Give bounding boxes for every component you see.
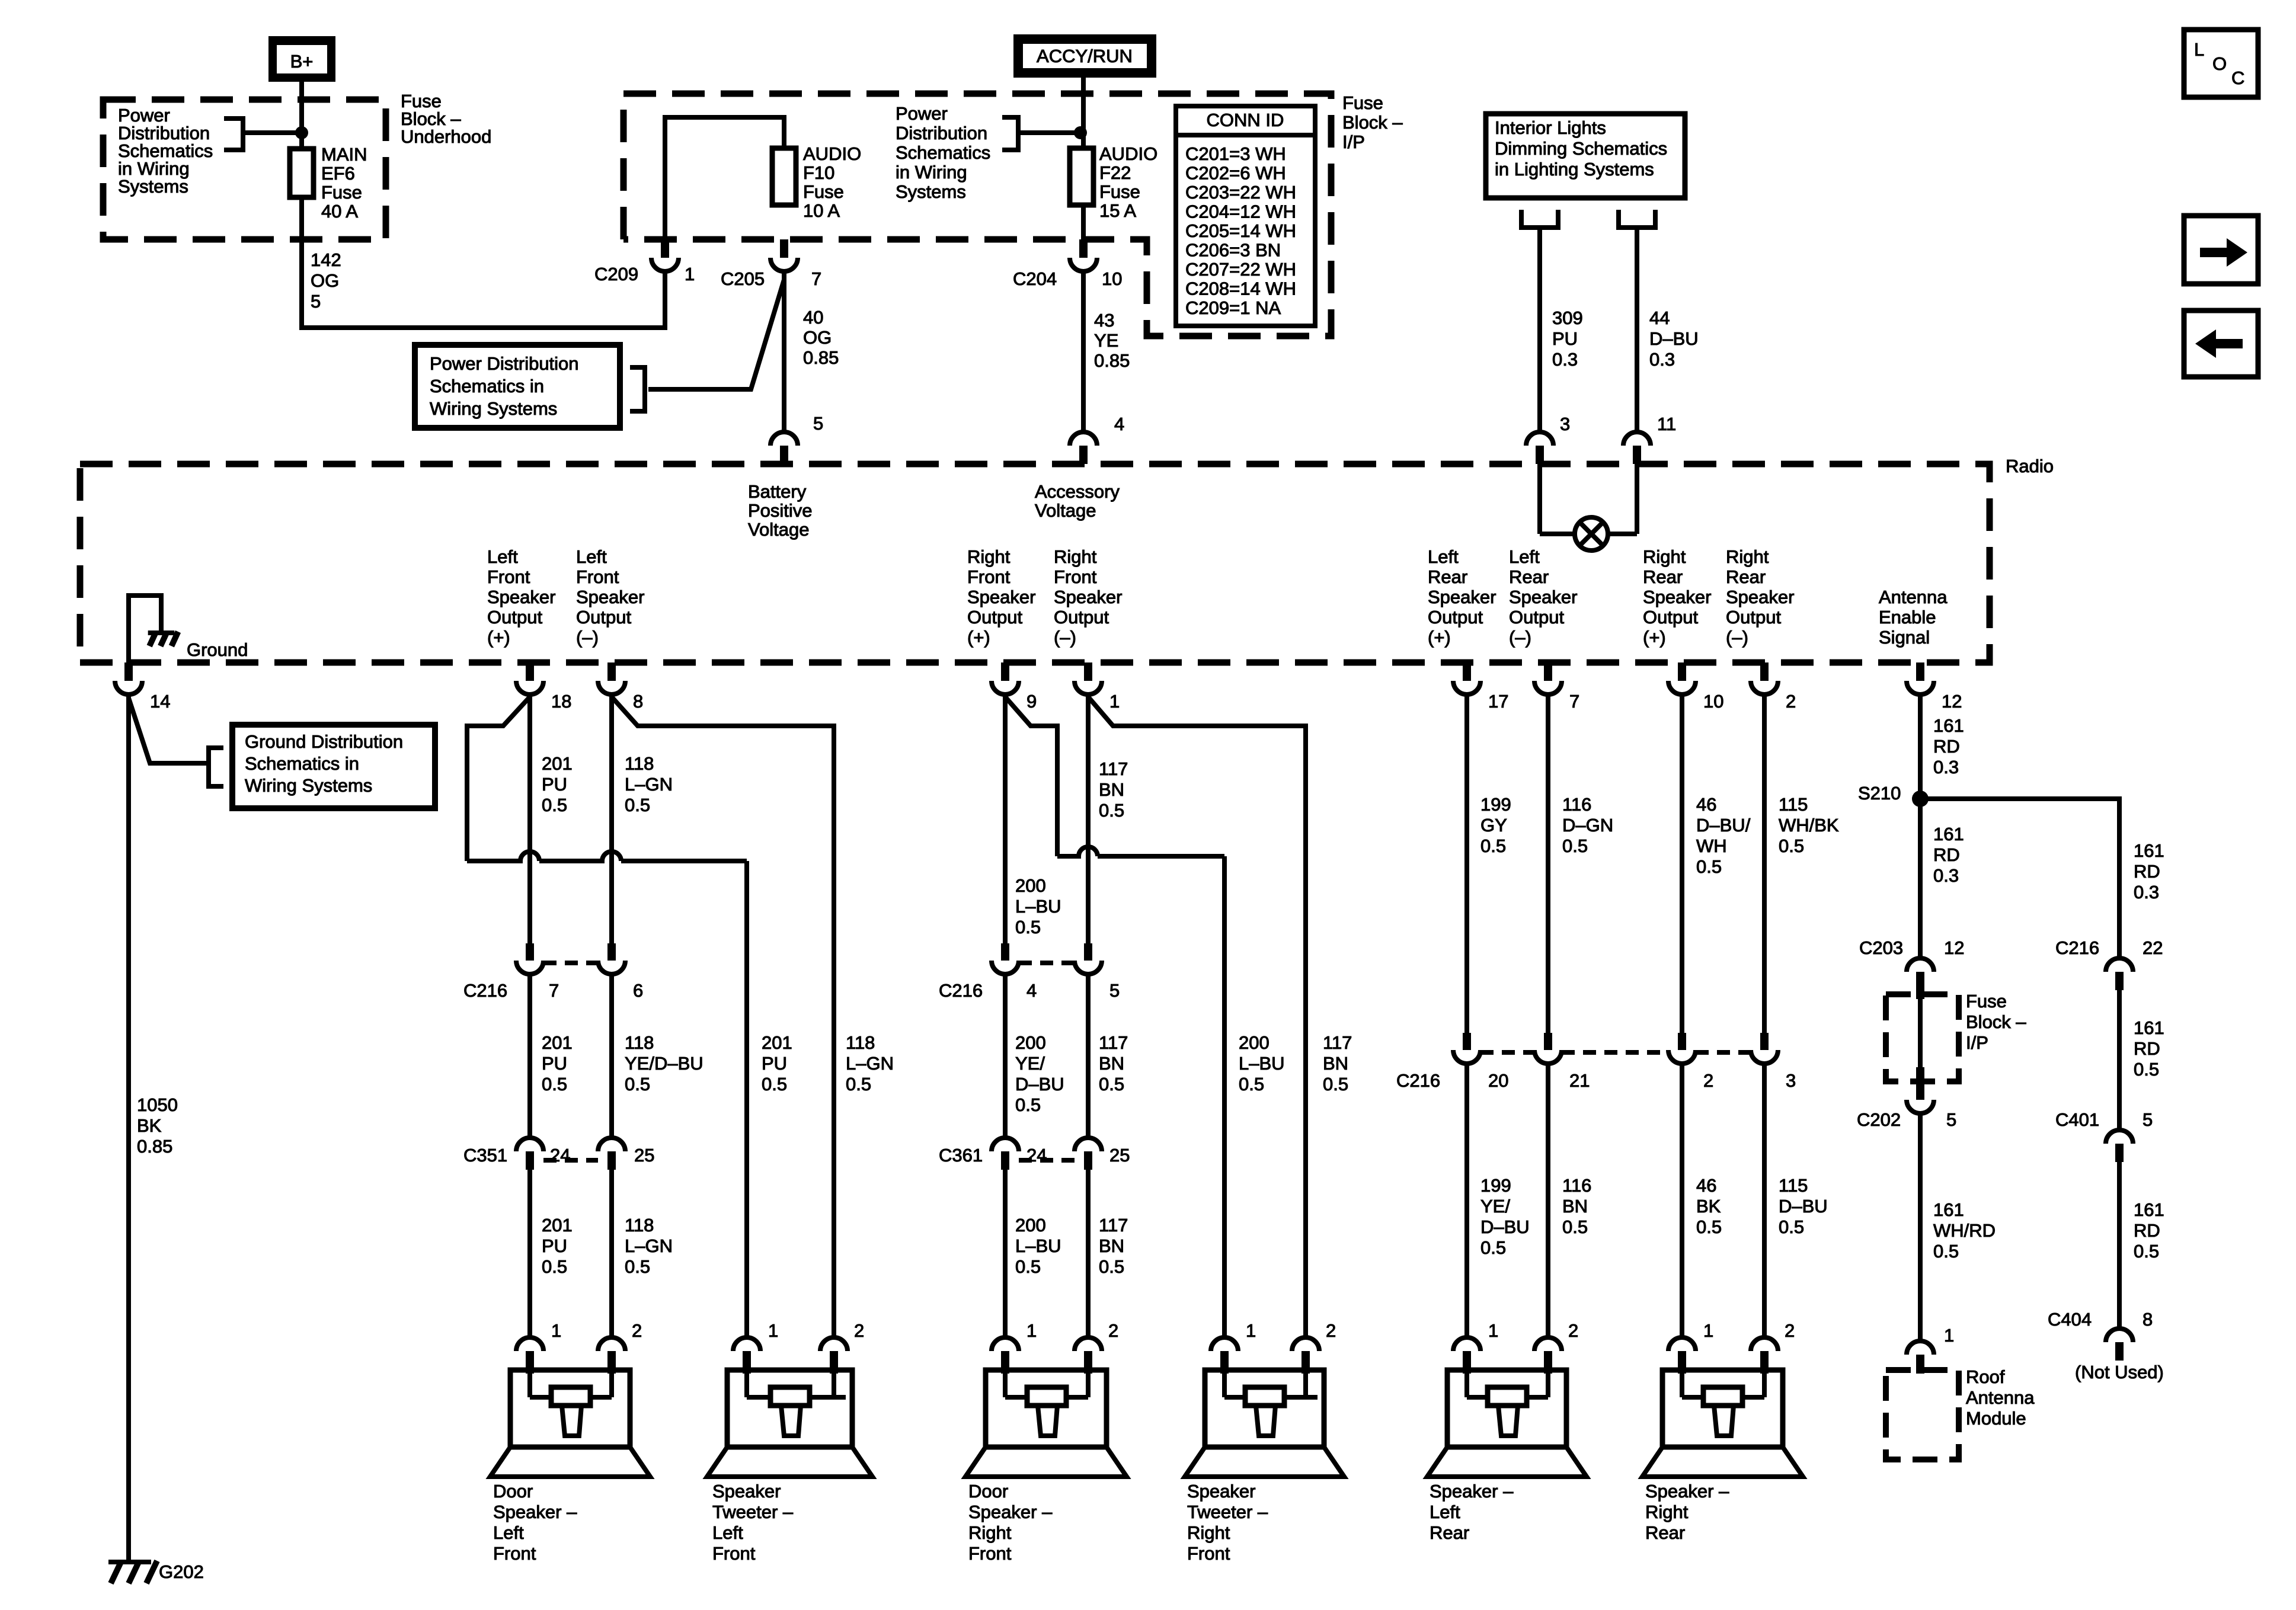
ground G202 bbox=[108, 1561, 157, 1583]
svg-text:(+): (+) bbox=[1643, 627, 1666, 648]
label Left Front Speaker Output (-) bbox=[576, 546, 644, 648]
svg-text:161: 161 bbox=[1933, 1199, 1964, 1220]
radio pin 12 bbox=[1907, 662, 1934, 694]
label 118 YE/D-BU 0.5 bbox=[625, 1032, 703, 1094]
radio pin 14 bbox=[115, 662, 142, 694]
svg-text:PU: PU bbox=[542, 1053, 567, 1074]
svg-text:11: 11 bbox=[1657, 414, 1676, 434]
speaker pins 1 2 tweeter right front bbox=[1246, 1320, 1256, 1341]
speaker pins 1 2 door speaker left front bbox=[551, 1320, 561, 1341]
label 199 YE/ D–BU 0.5 bbox=[1480, 1175, 1530, 1258]
wire 118 YE/D-BU 0.5 C216 to C351 bbox=[609, 974, 614, 1138]
svg-text:116: 116 bbox=[1562, 1175, 1591, 1196]
svg-text:0.5: 0.5 bbox=[1323, 1074, 1348, 1094]
connector C216 pin 7 bbox=[516, 943, 543, 974]
svg-text:0.5: 0.5 bbox=[1239, 1074, 1264, 1094]
svg-text:3: 3 bbox=[1560, 414, 1570, 434]
svg-text:0.85: 0.85 bbox=[137, 1136, 172, 1157]
connector C205 pin 7 bbox=[770, 239, 798, 271]
speaker left rear bbox=[1427, 1337, 1587, 1477]
box Power Distribution Schematics in Wiring Systems bbox=[415, 345, 620, 428]
connector C209 pin 1 bbox=[651, 239, 679, 271]
svg-text:117: 117 bbox=[1099, 1032, 1128, 1053]
svg-text:2: 2 bbox=[1703, 1070, 1713, 1091]
svg-text:117: 117 bbox=[1323, 1032, 1352, 1053]
label 117 BN 0.5 (pin 1) bbox=[1099, 758, 1128, 821]
connector C216 rear joint bbox=[1480, 1050, 1751, 1055]
svg-text:200: 200 bbox=[1015, 875, 1046, 896]
radio pin 3 bbox=[1526, 432, 1553, 464]
label 46 D–BU/ WH 0.5 bbox=[1696, 794, 1751, 877]
wire 201 PU 0.5 pin 18 to C216 bbox=[527, 694, 532, 943]
svg-text:142: 142 bbox=[311, 249, 341, 270]
fuse block I/P small dashed box bbox=[1886, 994, 1959, 1081]
svg-text:Fuse: Fuse bbox=[1342, 92, 1383, 113]
svg-text:RD: RD bbox=[1933, 736, 1960, 757]
label AUDIO F10 Fuse 10 A bbox=[803, 143, 861, 221]
svg-text:RD: RD bbox=[1933, 844, 1960, 865]
svg-text:1: 1 bbox=[1027, 1320, 1037, 1341]
svg-text:4: 4 bbox=[1027, 980, 1037, 1001]
svg-text:BN: BN bbox=[1099, 1053, 1124, 1074]
connector C202 pin 5 bbox=[1907, 1081, 1934, 1113]
label Accessory Voltage bbox=[1035, 481, 1120, 521]
radio pin 2 bbox=[1751, 662, 1778, 694]
svg-text:C361: C361 bbox=[939, 1145, 983, 1166]
radio pin 17 bbox=[1453, 662, 1480, 694]
label MAIN EF6 Fuse 40 A bbox=[321, 144, 367, 222]
label 43 YE 0.85 bbox=[1094, 310, 1130, 371]
svg-text:Power Distribution: Power Distribution bbox=[430, 353, 579, 374]
wire S210 branch right bbox=[1920, 799, 2119, 958]
svg-text:Left: Left bbox=[493, 1522, 524, 1543]
label G202 bbox=[159, 1561, 204, 1582]
radio pin 1 bbox=[1075, 662, 1102, 694]
connector C404 pin 8 bbox=[2106, 1329, 2133, 1361]
radio pin 11 bbox=[1623, 432, 1651, 464]
label 117 BN 0.5 (lower) bbox=[1099, 1215, 1128, 1277]
svg-text:0.5: 0.5 bbox=[1562, 836, 1588, 856]
svg-text:GY: GY bbox=[1480, 815, 1507, 836]
svg-text:8: 8 bbox=[2142, 1309, 2153, 1330]
svg-text:C208=14 WH: C208=14 WH bbox=[1185, 279, 1296, 299]
label 199 GY 0.5 bbox=[1480, 794, 1511, 856]
svg-text:0.5: 0.5 bbox=[1696, 856, 1722, 877]
svg-text:Roof: Roof bbox=[1966, 1366, 2005, 1387]
label 200 L-BU 0.5 (above C216) bbox=[1015, 875, 1061, 937]
svg-text:10 A: 10 A bbox=[803, 200, 840, 221]
door speaker left front bbox=[490, 1337, 650, 1477]
svg-text:2: 2 bbox=[1326, 1320, 1336, 1341]
wire 201 PU 0.5 C216 to C351 bbox=[527, 974, 532, 1138]
svg-text:PU: PU bbox=[542, 774, 567, 795]
svg-text:24: 24 bbox=[1027, 1145, 1047, 1166]
label 116 BN 0.5 bbox=[1562, 1175, 1591, 1237]
speaker tweeter right front bbox=[1185, 1337, 1344, 1477]
svg-text:(–): (–) bbox=[1509, 627, 1531, 648]
svg-text:1: 1 bbox=[1246, 1320, 1256, 1341]
svg-text:Enable: Enable bbox=[1879, 607, 1936, 628]
svg-text:0.3: 0.3 bbox=[1933, 865, 1959, 886]
wire 117 BN 0.5 pin 1 to C216 bbox=[1086, 694, 1091, 943]
svg-text:L–GN: L–GN bbox=[625, 1235, 673, 1256]
svg-text:Fuse: Fuse bbox=[1099, 181, 1140, 202]
svg-text:1: 1 bbox=[685, 264, 695, 284]
label Right Front Speaker Output (+) bbox=[967, 546, 1035, 648]
svg-text:Signal: Signal bbox=[1879, 627, 1930, 648]
label Door Speaker - Right Front bbox=[968, 1481, 1053, 1564]
bracket to B+ wire bbox=[224, 119, 296, 150]
svg-text:L–BU: L–BU bbox=[1015, 896, 1061, 917]
svg-text:Ground Distribution: Ground Distribution bbox=[245, 731, 403, 752]
wire 118 L-GN 0.5 C351 to door speaker bbox=[609, 1170, 614, 1337]
svg-text:8: 8 bbox=[633, 691, 643, 712]
interior lights exit tabs bbox=[1521, 210, 1655, 228]
label C361 24 25 bbox=[939, 1145, 983, 1166]
wire branch pin 9 to right tweeter bbox=[1005, 697, 1224, 1337]
radio pin 4 accessory voltage bbox=[1070, 432, 1097, 464]
CONN ID table bbox=[1176, 106, 1315, 326]
svg-text:C209=1 NA: C209=1 NA bbox=[1185, 297, 1281, 318]
svg-text:Schematics in: Schematics in bbox=[430, 376, 544, 396]
label Power Distribution Schematics in Wiring Systems (underhood) bbox=[118, 105, 213, 197]
svg-text:5: 5 bbox=[1946, 1109, 1956, 1130]
label C216 22 bbox=[2055, 937, 2099, 958]
svg-text:14: 14 bbox=[150, 691, 170, 712]
label Antenna Enable Signal bbox=[1879, 587, 1948, 648]
connector C351 joint bbox=[543, 1158, 598, 1163]
label 200 L-BU 0.5 (right tweeter) bbox=[1239, 1032, 1285, 1094]
svg-text:0.5: 0.5 bbox=[542, 1256, 567, 1277]
svg-text:C203: C203 bbox=[1859, 937, 1903, 958]
svg-text:PU: PU bbox=[762, 1053, 787, 1074]
svg-text:BK: BK bbox=[137, 1115, 162, 1136]
wire rear speaker column x=2838 lower bbox=[1680, 1064, 1684, 1337]
svg-text:YE/: YE/ bbox=[1015, 1053, 1045, 1074]
svg-text:C216: C216 bbox=[463, 980, 507, 1001]
label 118 L-GN 0.5 (above C216) bbox=[625, 753, 673, 815]
svg-text:0.5: 0.5 bbox=[625, 1256, 650, 1277]
svg-text:RD: RD bbox=[2134, 1220, 2160, 1241]
svg-text:7: 7 bbox=[549, 980, 559, 1001]
svg-text:OG: OG bbox=[311, 270, 339, 291]
svg-text:Tweeter –: Tweeter – bbox=[712, 1502, 794, 1522]
svg-text:I/P: I/P bbox=[1342, 132, 1365, 152]
svg-text:C204=12 WH: C204=12 WH bbox=[1185, 201, 1296, 222]
svg-text:Speaker –: Speaker – bbox=[968, 1502, 1053, 1522]
junction dot on ACCY wire bbox=[1074, 126, 1087, 139]
label 118 L-GN 0.5 (left tweeter) bbox=[846, 1032, 894, 1094]
svg-text:1: 1 bbox=[1109, 691, 1120, 712]
svg-text:Radio: Radio bbox=[2006, 456, 2054, 476]
svg-text:BN: BN bbox=[1099, 1235, 1124, 1256]
splice S210 bbox=[1912, 790, 1929, 807]
svg-text:Output: Output bbox=[967, 607, 1022, 628]
svg-text:24: 24 bbox=[550, 1145, 570, 1166]
svg-text:in Lighting Systems: in Lighting Systems bbox=[1495, 159, 1654, 180]
label 116 D–GN 0.5 bbox=[1562, 794, 1613, 856]
svg-text:Front: Front bbox=[576, 566, 619, 587]
connector C204 pin 10 bbox=[1070, 239, 1097, 271]
svg-text:2: 2 bbox=[1108, 1320, 1118, 1341]
svg-text:0.5: 0.5 bbox=[1015, 1256, 1041, 1277]
label 201 PU 0.5 (above C216) bbox=[542, 753, 573, 815]
bracket to ACCY wire bbox=[1002, 117, 1075, 150]
label Fuse Block - Underhood bbox=[401, 91, 491, 147]
svg-text:BN: BN bbox=[1099, 779, 1124, 800]
radio dashed box bbox=[80, 464, 1990, 662]
label 40 OG 0.85 bbox=[803, 307, 839, 368]
wire B+ to MAIN fuse bbox=[299, 82, 304, 150]
svg-text:Front: Front bbox=[967, 566, 1011, 587]
connector C216 pin 4 bbox=[992, 943, 1019, 974]
connector C216 pin 5 bbox=[1075, 943, 1102, 974]
svg-text:Left: Left bbox=[712, 1522, 743, 1543]
svg-text:Speaker: Speaker bbox=[712, 1481, 781, 1502]
label C216 7 6 bbox=[463, 980, 507, 1001]
svg-text:Speaker –: Speaker – bbox=[1645, 1481, 1729, 1502]
connector C216 pin 6 bbox=[598, 943, 625, 974]
label Right Front Speaker Output (-) bbox=[1054, 546, 1122, 648]
svg-text:AUDIO: AUDIO bbox=[1099, 143, 1157, 164]
svg-text:D–GN: D–GN bbox=[1562, 815, 1613, 836]
svg-text:Output: Output bbox=[1428, 607, 1483, 628]
svg-text:BN: BN bbox=[1323, 1053, 1348, 1074]
svg-text:0.5: 0.5 bbox=[1562, 1217, 1588, 1237]
svg-text:C202=6 WH: C202=6 WH bbox=[1185, 163, 1286, 184]
connector C361 pin 24 bbox=[992, 1138, 1019, 1170]
svg-text:Speaker: Speaker bbox=[1054, 587, 1122, 607]
svg-text:118: 118 bbox=[846, 1032, 875, 1053]
roof antenna module pin 1 bbox=[1907, 1341, 1934, 1374]
label Speaker Tweeter - Right Front bbox=[1187, 1481, 1268, 1564]
svg-text:D–BU: D–BU bbox=[1015, 1074, 1064, 1094]
label 118 L-GN 0.5 (lower) bbox=[625, 1215, 673, 1277]
label 115 WH/BK 0.5 bbox=[1779, 794, 1839, 856]
svg-text:Systems: Systems bbox=[896, 181, 966, 202]
svg-text:YE/D–BU: YE/D–BU bbox=[625, 1053, 703, 1074]
svg-text:21: 21 bbox=[1569, 1070, 1590, 1091]
connector C216 pin 20 bbox=[1453, 1033, 1480, 1064]
svg-text:2: 2 bbox=[1786, 691, 1796, 712]
svg-text:Front: Front bbox=[1187, 1543, 1230, 1564]
svg-text:Antenna: Antenna bbox=[1966, 1387, 2035, 1408]
fuse AUDIO F22 15 A bbox=[1070, 148, 1093, 205]
svg-text:BK: BK bbox=[1696, 1196, 1721, 1217]
connector C216 pin 3 bbox=[1751, 1033, 1778, 1064]
box Ground Distribution Schematics in Wiring Systems bbox=[232, 725, 435, 808]
wire 44 D-BU 0.3 bbox=[1635, 228, 1639, 432]
connector C203 pin 12 bbox=[1907, 958, 1934, 994]
label C401 5 bbox=[2055, 1109, 2099, 1130]
svg-text:Schematics in: Schematics in bbox=[245, 753, 359, 774]
connector C216 pin 2 bbox=[1668, 1033, 1696, 1064]
svg-text:Speaker: Speaker bbox=[1643, 587, 1711, 607]
label 117 BN 0.5 (right tweeter) bbox=[1323, 1032, 1352, 1094]
svg-text:15 A: 15 A bbox=[1099, 200, 1136, 221]
svg-text:C401: C401 bbox=[2055, 1109, 2099, 1130]
svg-text:C204: C204 bbox=[1013, 268, 1057, 289]
label Roof Antenna Module bbox=[1966, 1366, 2035, 1429]
wire 201 PU 0.5 C351 to door speaker bbox=[527, 1170, 532, 1337]
fuse MAIN EF6 40 A bbox=[290, 149, 314, 197]
svg-text:Front: Front bbox=[493, 1543, 536, 1564]
label Battery Positive Voltage bbox=[748, 481, 813, 540]
wire 200 L-BU 0.5 C361 to door speaker bbox=[1003, 1170, 1008, 1337]
svg-text:L–GN: L–GN bbox=[625, 774, 673, 795]
svg-text:Rear: Rear bbox=[1726, 566, 1766, 587]
svg-text:199: 199 bbox=[1480, 794, 1511, 815]
svg-text:1: 1 bbox=[1944, 1325, 1954, 1346]
svg-text:2: 2 bbox=[1785, 1320, 1795, 1341]
label Fuse Block - I/P bbox=[1342, 92, 1403, 152]
svg-text:Distribution: Distribution bbox=[896, 123, 987, 143]
svg-text:12: 12 bbox=[1944, 937, 1964, 958]
svg-text:0.5: 0.5 bbox=[1779, 1217, 1804, 1237]
label C204 10 bbox=[1013, 268, 1057, 289]
svg-text:C203=22 WH: C203=22 WH bbox=[1185, 182, 1296, 203]
svg-text:115: 115 bbox=[1779, 794, 1808, 815]
svg-text:G202: G202 bbox=[159, 1561, 204, 1582]
svg-text:B+: B+ bbox=[290, 51, 314, 72]
svg-text:0.5: 0.5 bbox=[1696, 1217, 1722, 1237]
svg-text:(+): (+) bbox=[487, 627, 510, 648]
svg-text:C205: C205 bbox=[721, 268, 765, 289]
label S210 bbox=[1858, 783, 1901, 804]
svg-text:0.5: 0.5 bbox=[1099, 1074, 1124, 1094]
svg-text:C209: C209 bbox=[594, 264, 638, 284]
svg-text:7: 7 bbox=[811, 268, 821, 289]
svg-text:116: 116 bbox=[1562, 794, 1591, 815]
illumination lamp bbox=[1540, 464, 1637, 550]
svg-text:199: 199 bbox=[1480, 1175, 1511, 1196]
svg-text:1: 1 bbox=[1488, 1320, 1498, 1341]
svg-text:0.3: 0.3 bbox=[1552, 349, 1578, 370]
LOC reference box bbox=[2184, 30, 2258, 97]
svg-text:118: 118 bbox=[625, 1032, 654, 1053]
svg-text:YE: YE bbox=[1094, 330, 1118, 351]
label 201 PU 0.5 (mid) bbox=[542, 1032, 573, 1094]
label 161 WH/RD 0.5 bbox=[1933, 1199, 1996, 1262]
label 200 YE/ D-BU 0.5 bbox=[1015, 1032, 1064, 1115]
svg-text:1: 1 bbox=[551, 1320, 561, 1341]
svg-text:0.5: 0.5 bbox=[846, 1074, 871, 1094]
label C404 8 bbox=[2048, 1309, 2092, 1330]
wire 117 BN 0.5 C216 to C361 bbox=[1086, 974, 1091, 1138]
wire 118 L-GN 0.5 pin 8 to C216 bbox=[609, 694, 614, 943]
connector C216 pin 21 bbox=[1534, 1033, 1562, 1064]
svg-text:Tweeter –: Tweeter – bbox=[1187, 1502, 1268, 1522]
svg-text:2: 2 bbox=[632, 1320, 642, 1341]
roof antenna module dashed box bbox=[1886, 1370, 1959, 1459]
label Left Rear Speaker Output (+) bbox=[1428, 546, 1496, 648]
svg-text:2: 2 bbox=[1568, 1320, 1578, 1341]
speaker pins 1 2 tweeter left front bbox=[768, 1320, 778, 1341]
svg-text:(–): (–) bbox=[1726, 627, 1748, 648]
wire rear speaker column x=2612 upper bbox=[1546, 694, 1550, 1033]
svg-text:Module: Module bbox=[1966, 1408, 2026, 1429]
svg-text:17: 17 bbox=[1488, 691, 1508, 712]
speaker pins 1 2 door speaker right front bbox=[1027, 1320, 1037, 1341]
svg-text:AUDIO: AUDIO bbox=[803, 143, 861, 164]
wire ACCY/RUN to AUDIO F22 fuse bbox=[1081, 78, 1086, 148]
svg-text:46: 46 bbox=[1696, 1175, 1716, 1196]
svg-text:0.5: 0.5 bbox=[625, 795, 650, 815]
label AUDIO F22 Fuse 15 A bbox=[1099, 143, 1157, 221]
svg-text:C207=22 WH: C207=22 WH bbox=[1185, 259, 1296, 280]
svg-text:D–BU: D–BU bbox=[1779, 1196, 1828, 1217]
radio pin 18 bbox=[516, 662, 543, 694]
label C216 4 5 bbox=[939, 980, 983, 1001]
speaker pins 1 2 speaker right rear bbox=[1703, 1320, 1713, 1341]
svg-text:Output: Output bbox=[1054, 607, 1109, 628]
svg-text:Right: Right bbox=[1054, 546, 1097, 567]
connector C361 joint bbox=[1019, 1158, 1075, 1163]
svg-text:5: 5 bbox=[813, 413, 823, 434]
svg-text:(Not Used): (Not Used) bbox=[2075, 1362, 2164, 1382]
svg-text:3: 3 bbox=[1786, 1070, 1796, 1091]
svg-text:0.85: 0.85 bbox=[1094, 350, 1130, 371]
label Radio bbox=[2006, 456, 2054, 476]
svg-text:Speaker: Speaker bbox=[576, 587, 644, 607]
svg-text:BN: BN bbox=[1562, 1196, 1588, 1217]
svg-text:1050: 1050 bbox=[137, 1094, 178, 1115]
wire rear speaker column x=2977 upper bbox=[1762, 694, 1767, 1033]
svg-text:40 A: 40 A bbox=[321, 201, 358, 222]
svg-text:Fuse: Fuse bbox=[1966, 991, 2007, 1012]
svg-text:YE/: YE/ bbox=[1480, 1196, 1510, 1217]
svg-text:PU: PU bbox=[1552, 328, 1578, 349]
connector C216 right joint bbox=[1019, 961, 1075, 965]
svg-text:Right: Right bbox=[967, 546, 1011, 567]
wire to ground distribution reference bbox=[129, 698, 223, 786]
connector C216 left joint bbox=[543, 961, 598, 965]
label 161 RD 0.3 (right column) bbox=[2134, 840, 2164, 902]
svg-text:Right: Right bbox=[1643, 546, 1686, 567]
svg-text:Wiring Systems: Wiring Systems bbox=[430, 398, 557, 419]
svg-text:117: 117 bbox=[1099, 1215, 1128, 1235]
svg-text:200: 200 bbox=[1015, 1032, 1046, 1053]
label 1050 BK 0.85 bbox=[137, 1094, 178, 1157]
svg-text:Output: Output bbox=[487, 607, 542, 628]
svg-text:22: 22 bbox=[2142, 937, 2163, 958]
label Speaker Tweeter - Left Front bbox=[712, 1481, 794, 1564]
wire rear speaker column x=2612 lower bbox=[1546, 1064, 1550, 1337]
svg-text:Speaker: Speaker bbox=[1726, 587, 1794, 607]
label Right Rear Speaker Output (+) bbox=[1643, 546, 1711, 648]
svg-text:RD: RD bbox=[2134, 861, 2160, 882]
label 117 BN 0.5 (mid) bbox=[1099, 1032, 1128, 1094]
svg-text:117: 117 bbox=[1099, 758, 1128, 779]
label Right Rear Speaker Output (-) bbox=[1726, 546, 1794, 648]
svg-text:9: 9 bbox=[1027, 691, 1037, 712]
svg-text:201: 201 bbox=[542, 1215, 573, 1235]
svg-text:Interior Lights: Interior Lights bbox=[1495, 117, 1606, 138]
svg-text:Antenna: Antenna bbox=[1879, 587, 1948, 607]
svg-text:C202: C202 bbox=[1857, 1109, 1901, 1130]
svg-text:1: 1 bbox=[768, 1320, 778, 1341]
svg-text:C216: C216 bbox=[1396, 1070, 1440, 1091]
svg-text:Voltage: Voltage bbox=[1035, 500, 1096, 521]
svg-text:C404: C404 bbox=[2048, 1309, 2092, 1330]
wire C205 to power distribution reference bbox=[630, 280, 784, 411]
svg-text:43: 43 bbox=[1094, 310, 1114, 331]
svg-text:118: 118 bbox=[625, 1215, 654, 1235]
svg-text:Block –: Block – bbox=[1966, 1012, 2026, 1032]
svg-text:RD: RD bbox=[2134, 1038, 2160, 1059]
svg-text:Accessory: Accessory bbox=[1035, 481, 1120, 502]
svg-text:201: 201 bbox=[762, 1032, 792, 1053]
